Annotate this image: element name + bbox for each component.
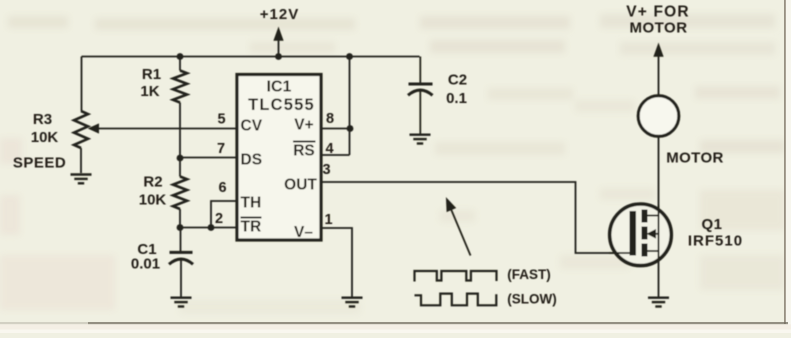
- svg-text:(FAST): (FAST): [507, 267, 551, 282]
- svg-text:IC1: IC1: [267, 79, 292, 96]
- junction dot TH/TR: [208, 224, 215, 231]
- pin numbers: [215, 111, 334, 228]
- wire DS pin 7: [180, 157, 237, 159]
- svg-text:SPEED: SPEED: [13, 155, 66, 172]
- Q1 gate bar: [630, 211, 637, 256]
- Q1 body arrow: [652, 233, 659, 235]
- ground (R3): [71, 175, 92, 184]
- wire TH pin 6: [211, 201, 237, 228]
- wire top supply rail: [82, 56, 420, 58]
- svg-text:TLC555: TLC555: [248, 96, 315, 114]
- resistor R2: [179, 158, 181, 177]
- junction dot at +12V: [275, 53, 282, 60]
- Q1 drain stub: [648, 215, 659, 217]
- svg-text:5: 5: [217, 112, 225, 128]
- svg-text:3: 3: [322, 162, 330, 178]
- R2 value label: [139, 174, 167, 209]
- wire TR pin 2: [180, 227, 237, 229]
- svg-text:1: 1: [324, 212, 332, 228]
- svg-text:+12V: +12V: [260, 6, 299, 23]
- waveform SLOW: [415, 294, 497, 306]
- overline TR: [241, 217, 262, 219]
- R1 value label: [140, 66, 161, 100]
- Q1 source stub: [648, 250, 659, 252]
- svg-text:(SLOW): (SLOW): [507, 292, 557, 307]
- svg-text:CV: CV: [241, 118, 263, 135]
- C1 value label: [131, 241, 160, 273]
- node +12V label: [260, 6, 299, 23]
- transistor Q1 IRF510: [610, 204, 672, 266]
- motor M1 circle: [638, 96, 679, 137]
- annotation arrow to waveforms: [451, 210, 470, 256]
- svg-text:MOTOR: MOTOR: [666, 150, 724, 167]
- wire drain inside Q1: [658, 205, 660, 216]
- wire gate inside Q1: [609, 252, 631, 254]
- R3 wiper arrow: [96, 128, 237, 130]
- node V+ FOR MOTOR label: [626, 4, 690, 37]
- bottom rule: [88, 322, 788, 324]
- wire motor to drain: [658, 137, 660, 216]
- svg-text:TR: TR: [241, 219, 262, 236]
- junction dot R2 bottom: [177, 224, 184, 231]
- wire V- pin 1: [321, 228, 352, 297]
- svg-text:7: 7: [217, 141, 225, 157]
- Q1 channel segments: [642, 210, 648, 223]
- resistor R3 (potentiometer): [81, 57, 83, 112]
- svg-text:IRF510: IRF510: [688, 233, 743, 250]
- ground (pin 1): [342, 298, 363, 307]
- svg-text:0.1: 0.1: [446, 90, 467, 107]
- svg-text:0.01: 0.01: [131, 256, 160, 273]
- svg-text:V+: V+: [294, 117, 313, 134]
- capacitor C1: [180, 228, 182, 252]
- wire V+ pin 8: [321, 128, 350, 130]
- svg-text:V–: V–: [294, 224, 313, 241]
- svg-text:C2: C2: [448, 72, 467, 89]
- ground (C2): [410, 135, 431, 144]
- C2 value label: [446, 72, 467, 108]
- svg-text:MOTOR: MOTOR: [629, 20, 687, 37]
- svg-text:TH: TH: [241, 195, 262, 212]
- svg-text:10K: 10K: [31, 129, 59, 146]
- bottom margin strip: [0, 324, 791, 333]
- waveform FAST: [415, 271, 497, 282]
- svg-text:10K: 10K: [139, 192, 167, 209]
- svg-text:V+ FOR: V+ FOR: [626, 4, 690, 21]
- svg-text:OUT: OUT: [284, 177, 317, 194]
- +12V arrow: [278, 39, 280, 57]
- svg-text:8: 8: [326, 111, 334, 127]
- svg-text:R3: R3: [33, 111, 52, 128]
- R3 value label: [13, 111, 66, 172]
- resistor R1: [179, 57, 181, 71]
- svg-text:Q1: Q1: [701, 216, 722, 233]
- junction dot pin 8: [347, 125, 354, 132]
- wire rail drop to pins 8/4: [349, 57, 351, 156]
- ground (C1): [171, 298, 192, 307]
- wire RS pin 4: [321, 154, 350, 156]
- junction dot at R1 top: [177, 53, 184, 60]
- V+ motor arrow: [658, 55, 660, 96]
- capacitor C2: [419, 57, 421, 83]
- junction dot DS: [177, 155, 184, 162]
- svg-text:R1: R1: [142, 66, 161, 83]
- ground (Q1 source): [648, 298, 669, 307]
- svg-text:6: 6: [218, 180, 226, 196]
- Q1 labels: [688, 216, 743, 250]
- Q1 internal bus: [658, 216, 660, 252]
- svg-text:DS: DS: [241, 152, 263, 169]
- svg-text:1K: 1K: [140, 83, 159, 100]
- svg-text:R2: R2: [143, 174, 162, 191]
- wire OUT pin 3 to gate: [321, 182, 630, 253]
- wire source to ground: [658, 251, 660, 297]
- motor label: [666, 150, 724, 167]
- right margin paper: [786, 0, 791, 333]
- svg-text:2: 2: [215, 211, 223, 227]
- svg-text:RS: RS: [293, 143, 315, 160]
- overline RS: [293, 141, 316, 143]
- junction dot at V+ drop: [346, 53, 353, 60]
- right column rule: [784, 0, 786, 324]
- IC IC1 TLC555 timer box: [237, 75, 321, 241]
